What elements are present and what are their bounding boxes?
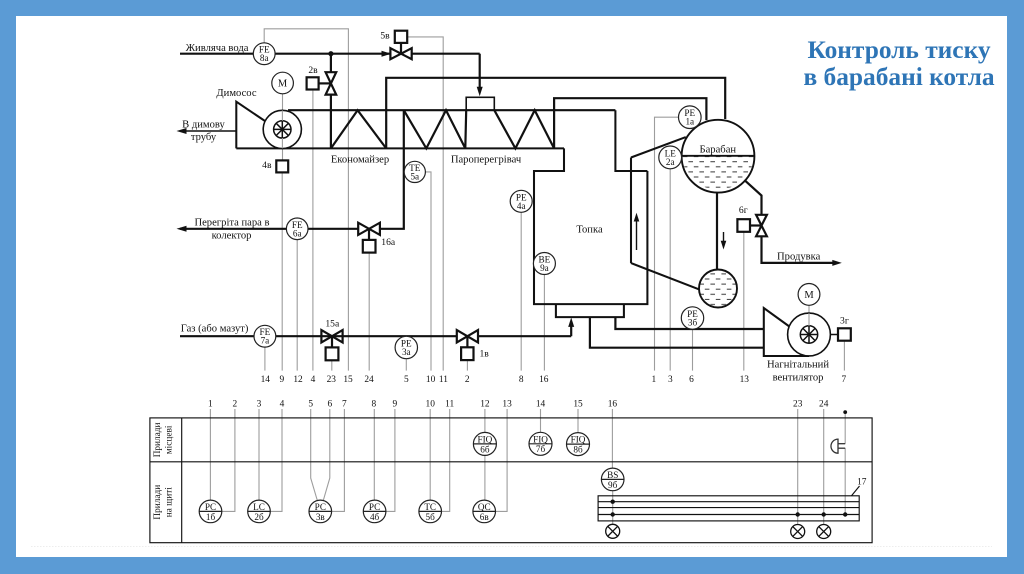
attemperator box on superheater [466,97,494,110]
wire signal TE5a to line 10 [425,172,431,371]
wire motor shaft through dimosos fan [281,110,283,120]
svg-text:на щиті: на щиті [165,487,175,518]
panel outer box [150,418,872,543]
svg-text:М: М [804,290,814,301]
svg-text:11: 11 [439,375,448,385]
svg-text:9: 9 [280,375,285,385]
fan nagnit housing [764,308,809,356]
flue gas duct bottom [236,147,564,149]
svg-text:місцеві: місцеві [165,425,175,454]
svg-text:Барабан: Барабан [700,144,737,155]
svg-text:14: 14 [536,400,546,410]
svg-text:6: 6 [327,400,332,410]
wire signal M-fan to wheel [808,305,810,313]
svg-text:24: 24 [364,375,374,385]
nagnit fan wheel [800,326,817,343]
arrow to chimney (left) [177,128,187,134]
svg-text:5в: 5в [380,31,390,42]
svg-text:1: 1 [652,375,657,385]
svg-text:в барабані котла: в барабані котла [803,63,994,91]
svg-text:15а: 15а [325,319,340,330]
dimosos fan housing [236,102,268,149]
svg-text:2: 2 [233,400,238,410]
svg-text:3: 3 [257,400,262,410]
wire signal M-dimosos/4v to line 9 [282,94,284,161]
wire feed branch down through valve 2v [330,54,332,72]
svg-text:9б: 9б [608,480,618,490]
svg-text:колектор: колектор [212,231,252,242]
svg-text:Живляча вода: Живляча вода [186,43,249,54]
wire gas riser into hopper [570,323,572,336]
wire signal FE6a to line 12 [296,240,298,371]
dimosos exhaust duct line [180,130,236,132]
instrument FE 7a circle [254,325,276,347]
svg-text:Продувка: Продувка [777,251,821,262]
wire gas line [180,335,457,337]
svg-text:9а: 9а [540,263,549,273]
svg-text:FIQ: FIQ [477,435,492,445]
riser diagonal to drum [631,137,686,157]
lower drum vessel [699,270,737,308]
wire signal PE1a to line 1 [655,117,679,370]
panel label column divider [181,418,183,543]
svg-text:4: 4 [280,400,285,410]
svg-text:12: 12 [480,400,490,410]
svg-text:FIQ: FIQ [571,435,586,445]
wire superheated steam outlet [380,110,404,229]
svg-text:16: 16 [608,400,618,410]
horn alarm symbol [831,439,845,453]
wire signal BE9a to line 16 [543,275,545,371]
wire economizer coil [331,110,386,148]
wire fan outlet to 3g [818,334,838,336]
controller PC 4b [363,500,386,523]
wire drum to superheater [554,98,706,148]
title [803,36,994,91]
wire air duct upper [615,317,763,329]
wire economizer outlet to drum [386,78,725,149]
wire signal 6g to line 13 [743,232,745,371]
valve 16a actuator [368,229,370,240]
svg-text:5: 5 [308,400,313,410]
svg-text:8: 8 [519,375,524,385]
svg-text:Прилади: Прилади [153,422,163,457]
svg-text:В димову: В димову [182,120,225,131]
svg-text:5б: 5б [426,512,436,522]
arrowheads black [177,51,842,327]
valve 5v bowtie [390,48,411,59]
instrument TE 5a circle [404,161,425,182]
svg-text:LC: LC [253,502,265,512]
wire signal 5v to line 11 [407,37,443,371]
recorder FIQ 7b [529,432,552,455]
svg-text:1в: 1в [480,349,490,360]
valve 6g actuator [750,224,762,226]
svg-text:Контроль тиску: Контроль тиску [807,36,990,64]
wire signal LE2a to line 3 [669,169,671,371]
svg-text:23: 23 [327,375,337,385]
svg-text:7а: 7а [261,336,270,346]
drum vessel [682,120,755,193]
panel column wires grey [210,409,845,525]
arrow into attemperator (down) [477,87,483,96]
svg-text:16: 16 [539,375,549,385]
svg-text:6б: 6б [480,444,490,454]
valve 15a bowtie [321,330,342,342]
svg-text:3а: 3а [402,347,411,357]
svg-text:2б: 2б [254,512,264,522]
svg-text:10: 10 [426,375,436,385]
svg-text:8б: 8б [573,445,583,455]
leader line for 17 [852,486,860,496]
svg-text:17: 17 [857,478,867,488]
svg-text:BS: BS [607,470,618,480]
svg-text:вентилятор: вентилятор [773,373,824,384]
svg-text:ТС: ТС [424,502,436,512]
instrument PE 3b circle [681,307,703,329]
svg-text:15: 15 [573,400,583,410]
svg-text:FIQ: FIQ [533,434,548,444]
valve 1v bowtie [457,330,478,342]
switch 4v box [276,160,288,172]
motor M nagnit circle [798,284,820,306]
arrow blowdown right [832,260,842,266]
nagnit fan scroll circle [788,313,831,356]
valve 16a bowtie [358,223,380,235]
panel bus strip 17 [598,496,859,521]
instrument LE 2a circle [659,146,682,169]
svg-text:8: 8 [372,400,377,410]
svg-text:4в: 4в [262,160,272,171]
controller PC 1b [199,500,222,523]
svg-text:6: 6 [689,375,694,385]
svg-text:6г: 6г [739,205,748,216]
svg-text:6а: 6а [293,228,302,238]
svg-text:1: 1 [208,400,213,410]
panel circle labels [205,434,619,521]
wire signal 16a to line 24 [368,253,370,371]
svg-text:7б: 7б [536,444,546,454]
svg-text:Економайзер: Економайзер [331,154,389,165]
controller PC 3v [309,500,332,523]
dimosos wheel [274,121,291,138]
wire signal FE8a to line 15 [264,29,348,371]
motor M dimosos circle [272,72,294,94]
svg-text:7: 7 [841,375,846,385]
wire downcomer drum to lower drum [716,193,718,270]
instrument FE 8a circle [253,43,275,65]
svg-text:3б: 3б [688,318,698,328]
wire signal PE3a to line 5 [405,359,407,371]
valve 15a actuator [331,336,333,347]
panel instrument circles [199,432,624,522]
arrow feed before valve 5v (right) [382,51,392,57]
lamp symbols [606,524,831,538]
svg-text:2а: 2а [666,157,675,167]
recorder FIQ 8b [567,433,590,456]
wire signal PE3b to line 6 [692,329,694,370]
valve 2v bowtie (vertical) [326,72,337,94]
junction dots on bus [611,410,848,517]
node junction feed line [328,51,333,56]
svg-text:Нагнітальний: Нагнітальний [767,359,829,370]
switch BS 9b [601,468,624,491]
svg-text:3: 3 [668,375,673,385]
wire signal PE4a to line 8 [520,212,522,370]
wire feed to attemperator down [479,54,481,92]
arrow steam to collector (left) [177,226,187,232]
svg-text:11: 11 [445,400,454,410]
panel header numbers [208,400,867,488]
arrow gas into hopper (up) [568,318,574,327]
wire signal 2v to line 4 [312,91,314,371]
svg-text:трубу: трубу [191,132,217,143]
valve 1v actuator [466,336,468,347]
wire signal 15a to line 23 [331,360,333,370]
instrument PE 4a circle [510,190,532,212]
svg-text:10: 10 [426,400,436,410]
svg-text:5: 5 [404,375,409,385]
svg-text:13: 13 [502,400,512,410]
panel row labels rotated [153,422,175,519]
svg-text:РС: РС [369,502,380,512]
svg-text:Пароперегрівач: Пароперегрівач [451,154,522,165]
controller QC 6v [473,500,496,523]
valve 5v actuator [400,43,402,54]
svg-text:РС: РС [205,502,216,512]
riser diagonal to lower drum [631,263,699,289]
arrow riser channel up [636,217,638,250]
recorder FIQ 6b [473,432,496,455]
svg-text:М: М [278,79,288,90]
riser channel left wall [630,158,632,264]
svg-text:8а: 8а [260,53,269,63]
svg-text:Перегріта пара в: Перегріта пара в [194,217,269,228]
svg-text:1а: 1а [685,117,694,127]
wire superheater coil [404,110,466,148]
wire air duct lower [590,317,764,348]
furnace hopper box [556,304,624,317]
arrow downcomer down [723,232,725,245]
drum water level line [682,155,755,157]
dimosos scroll circle [263,110,301,148]
svg-text:24: 24 [819,400,829,410]
svg-text:6в: 6в [480,512,490,522]
svg-text:РС: РС [315,502,326,512]
instrument FE 6a circle [286,218,308,240]
svg-text:4а: 4а [517,201,526,211]
instrument PE 3a circle [395,336,417,358]
svg-text:3г: 3г [840,315,849,326]
wire signal 3g to line 7 [843,341,845,371]
svg-text:Прилади: Прилади [153,485,163,520]
svg-text:3в: 3в [316,512,326,522]
duct right end wall [615,110,647,171]
svg-text:4б: 4б [370,512,380,522]
svg-text:5а: 5а [410,171,419,181]
drum water fill [682,156,755,190]
node numbers row under diagram [261,375,847,385]
svg-text:Газ (або мазут): Газ (або мазут) [181,323,249,334]
wire feed water line [180,53,390,55]
controller LC 2b [248,500,271,523]
svg-text:QC: QC [478,502,491,512]
svg-text:9: 9 [393,400,398,410]
svg-text:2: 2 [465,375,470,385]
instrument BE 9a circle [533,253,555,275]
svg-text:14: 14 [261,375,271,385]
wire signal FE7a to line 14 [264,347,266,370]
flue gas duct top [288,109,615,111]
switch 3g box [838,328,851,340]
svg-text:7: 7 [342,400,347,410]
wire signal 1v to line 2 [466,360,468,371]
svg-text:15: 15 [343,375,353,385]
instrument PE 1a circle [679,106,702,129]
svg-text:23: 23 [793,400,803,410]
panel row divider [150,461,872,463]
valve 2v actuator [319,82,331,84]
svg-text:2в: 2в [308,65,318,76]
furnace outline [534,148,647,304]
wire motor shaft through nagnit fan [808,313,810,326]
svg-text:13: 13 [740,375,750,385]
svg-text:16а: 16а [381,237,396,248]
svg-text:Димосос: Димосос [216,88,256,99]
controller TC 5b [419,500,442,523]
svg-text:Топка: Топка [576,224,603,235]
svg-text:1б: 1б [206,512,216,522]
wire blowdown from drum [745,181,762,215]
svg-text:12: 12 [293,375,303,385]
svg-text:4: 4 [311,375,316,385]
valve 6g bowtie (vertical) [756,215,767,237]
